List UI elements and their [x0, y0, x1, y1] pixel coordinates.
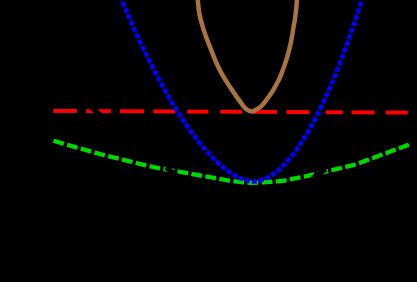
black slash 3: black curve crossing green (right) [313, 169, 327, 178]
black slash 1: black curve crossing red dash [86, 104, 101, 116]
curve green: dashed shallow convex curve [54, 141, 410, 183]
black slash 2: black curve crossing green (left) [166, 168, 180, 178]
curve brown: solid narrow parabola [197, 0, 297, 112]
curve red: dashed horizontal line y=1 [53, 111, 407, 113]
curve blue: dotted parabola [120, 0, 363, 182]
